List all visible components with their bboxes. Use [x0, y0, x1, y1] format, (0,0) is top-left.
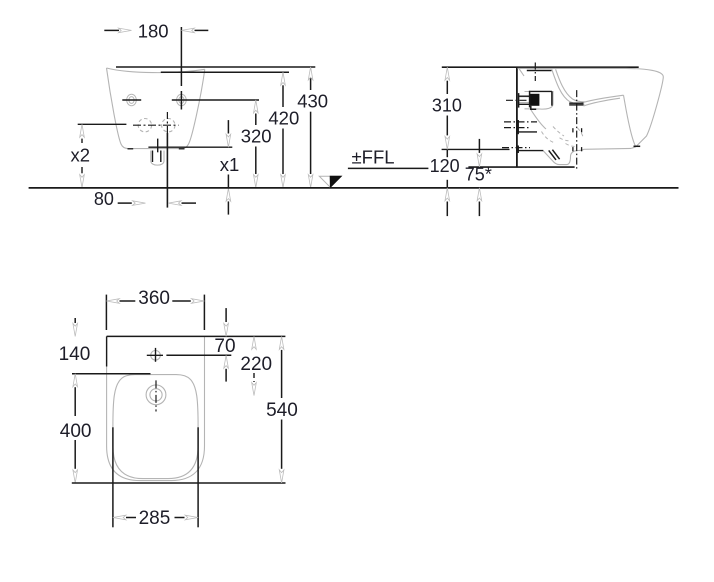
mounting hole left: [127, 94, 137, 106]
svg-text:70: 70: [214, 336, 235, 357]
svg-text:285: 285: [139, 508, 171, 529]
drain pipe: [152, 151, 154, 163]
bidet front outline: [107, 68, 205, 149]
drain flange: [569, 102, 583, 104]
inlet fitting outline: [525, 92, 554, 110]
dim 310: [445, 67, 450, 80]
dash-dot through supply holes: [133, 124, 179, 126]
svg-text:80: 80: [94, 189, 114, 209]
svg-text:75*: 75*: [465, 165, 492, 185]
outer body outline: [107, 337, 205, 481]
mid supply dash-dots: [504, 121, 537, 123]
front bottom tick: [634, 145, 641, 147]
bottom x1 ref line: [148, 146, 232, 148]
floor line: [29, 187, 679, 189]
underside curve to trap: [531, 110, 546, 129]
wall top notch: [519, 69, 524, 76]
top line 420 ref: [161, 71, 289, 73]
120 level ref line: [442, 148, 510, 150]
dim 75*: [478, 139, 480, 153]
trap outline: [543, 149, 583, 164]
lower supply dash-dots: [502, 147, 530, 149]
drain centerline: [155, 380, 157, 411]
svg-text:x1: x1: [220, 154, 240, 175]
svg-text:120: 120: [430, 156, 460, 176]
dim 320: [254, 100, 259, 113]
svg-text:360: 360: [138, 288, 170, 309]
bottom edge tick dashes: [128, 148, 134, 150]
dim 420: [281, 72, 286, 85]
FFL level line segment: [348, 167, 429, 169]
inlet black square: [530, 94, 539, 106]
centerline upper (through 180 dim and right hole): [180, 27, 182, 86]
inner rim line going left from front: [579, 95, 624, 104]
svg-text:540: 540: [266, 400, 298, 421]
rim top to back curve and outer front edge: [518, 68, 664, 146]
top line 430 ref: [116, 66, 315, 68]
bracket over square: [530, 90, 552, 92]
svg-text:320: 320: [241, 126, 272, 147]
dim 360: [105, 295, 107, 330]
supply flange left of square: [518, 93, 520, 108]
hidden water path dashed gray: [542, 127, 584, 147]
svg-text:400: 400: [60, 421, 92, 442]
svg-text:x2: x2: [71, 145, 91, 166]
rear edge dark top line: [107, 335, 286, 337]
dim 285 ext lines: [112, 427, 114, 527]
dim x1: [227, 120, 229, 133]
wall line: [516, 67, 518, 167]
centerline lower (through right supply hole, below floor): [166, 112, 168, 133]
inner front edge: [624, 95, 636, 147]
dim x2: [80, 124, 85, 137]
x2 reference line: [78, 123, 127, 125]
inner basin outline: [113, 375, 198, 479]
drain circles: [146, 385, 166, 405]
svg-text:±FFL: ±FFL: [352, 146, 395, 167]
bottom outline slope to front: [631, 147, 636, 149]
tap hole ref line to right: [166, 354, 231, 356]
left edge dark upper segment: [106, 336, 108, 366]
dim 430: [308, 67, 313, 80]
dim 540: [279, 336, 284, 349]
svg-text:180: 180: [138, 21, 169, 42]
tick through left hole: [122, 99, 141, 101]
L bracket below square: [531, 106, 536, 109]
tap centerline: [534, 63, 536, 82]
dim 140 / 400 (left): [74, 318, 76, 323]
bowl interior double curve: [552, 69, 585, 104]
line through right hole to 320 dim: [172, 99, 259, 101]
top ref line: [442, 66, 639, 68]
FFL marker: [319, 176, 341, 187]
drain hidden edges dashes: [572, 128, 574, 132]
drain cross: [157, 139, 159, 153]
svg-text:140: 140: [59, 344, 91, 365]
bidet outline side (gray): [518, 68, 664, 164]
dim 70: [225, 308, 227, 322]
dim 180: [104, 29, 119, 31]
tap hole: [151, 351, 161, 361]
dim 220: [252, 336, 257, 349]
drain centerline: [576, 90, 578, 169]
svg-text:220: 220: [240, 354, 272, 375]
svg-text:430: 430: [297, 91, 328, 112]
outlet pipe hatch: [549, 150, 556, 160]
supply holes dashed circles: [138, 119, 175, 132]
svg-text:420: 420: [268, 108, 299, 129]
svg-text:310: 310: [432, 95, 462, 115]
mounting hole right: [177, 94, 187, 106]
bottom ref line: [72, 482, 286, 484]
140 ref line (basin top): [72, 373, 151, 375]
dim 285: [113, 515, 126, 520]
